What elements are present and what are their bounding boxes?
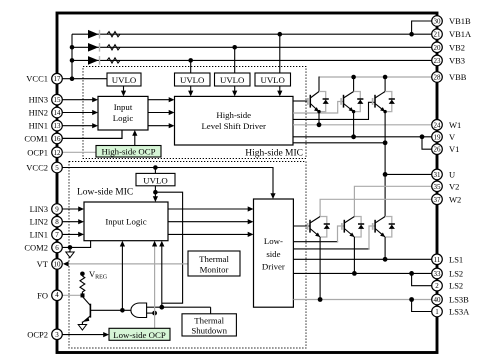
svg-text:VB1B: VB1B	[449, 16, 471, 26]
wire LS1	[293, 257, 431, 262]
svg-text:side: side	[266, 249, 280, 259]
wire gate drive Q5	[293, 226, 344, 242]
high-side MIC dotted box	[83, 67, 306, 159]
pin 6 COM2	[24, 242, 62, 253]
svg-text:Thermal: Thermal	[194, 316, 224, 326]
bootstrap diode D1	[88, 30, 100, 39]
wire VCC2 feed to thermal shutdown	[155, 192, 182, 303]
pin 14 HIN2	[29, 107, 63, 118]
pin 12 OCP1	[27, 147, 62, 158]
block high-side input logic	[98, 96, 148, 130]
svg-text:16: 16	[54, 135, 62, 143]
wire U sense	[293, 140, 388, 145]
arrow low input logic out 3	[168, 232, 254, 237]
arrow fault gate to input logic	[120, 241, 125, 311]
svg-text:15: 15	[54, 96, 62, 104]
svg-text:30: 30	[434, 18, 442, 26]
wire Q5 emitter to LS2	[353, 237, 355, 273]
svg-text:UVLO: UVLO	[180, 75, 204, 85]
svg-text:LIN2: LIN2	[30, 217, 48, 227]
pin 28 VBB	[432, 72, 467, 83]
wire Q7 base	[90, 308, 131, 313]
svg-text:20: 20	[434, 44, 442, 52]
bootstrap resistor R1	[107, 32, 120, 37]
svg-text:5: 5	[55, 164, 59, 172]
svg-text:12: 12	[54, 149, 62, 157]
arrow input logic out 1	[148, 97, 175, 102]
wire VCC1 bootstrap feed vertical	[70, 34, 75, 81]
wire VBB rail	[319, 75, 432, 92]
wire VCC2	[62, 165, 273, 194]
block low-side driver	[254, 199, 294, 307]
svg-text:13: 13	[54, 122, 62, 130]
op block UVLO4	[255, 73, 291, 86]
wire W1 sense	[293, 122, 432, 127]
wire low-side OCP output	[154, 313, 156, 328]
arrow VCC2 into low-side driver	[270, 193, 275, 199]
arrow input logic out 2	[148, 110, 175, 115]
wire VB1A row	[72, 33, 432, 35]
block low-side input logic	[84, 202, 168, 241]
svg-text:UVLO: UVLO	[260, 75, 284, 85]
pin 3 OCP2	[27, 329, 62, 340]
wire LIN1	[62, 232, 84, 237]
svg-text:11: 11	[434, 256, 441, 264]
pin 26 V1	[432, 144, 460, 155]
svg-text:LIN1: LIN1	[30, 229, 48, 239]
svg-text:VT: VT	[37, 259, 49, 269]
node VREG	[80, 269, 108, 281]
wire HIN2	[62, 110, 98, 115]
svg-text:17: 17	[54, 75, 62, 83]
arrow thermal shutdown to input logic	[159, 241, 164, 308]
diode across Q4 low-side W	[320, 217, 330, 238]
svg-text:19: 19	[434, 133, 442, 141]
svg-text:VCC1: VCC1	[26, 74, 48, 84]
junction row3 to UVLO2	[188, 58, 193, 63]
wire Q6 emitter to LS1	[384, 237, 386, 259]
diode across Q5 low-side V	[354, 217, 364, 238]
diode across Q3 high-side U	[385, 92, 395, 112]
svg-text:6: 6	[55, 244, 59, 252]
wire VCC2 tap to UVLO5	[154, 168, 156, 174]
arrow UVLO1 to input logic	[121, 86, 126, 96]
svg-text:33: 33	[434, 270, 442, 278]
svg-text:VBB: VBB	[449, 72, 467, 82]
pin 37 W2	[432, 194, 462, 205]
pin 2 LS2	[432, 280, 463, 291]
transistor Q6 low-side U	[373, 217, 385, 238]
svg-text:LS2: LS2	[449, 281, 463, 291]
package outline	[57, 13, 437, 353]
svg-text:Thermal: Thermal	[199, 254, 229, 264]
svg-text:31: 31	[434, 171, 442, 179]
svg-text:Low-side MIC: Low-side MIC	[77, 188, 133, 198]
arrow UVLO3 to level shift driver	[232, 86, 237, 96]
svg-text:W1: W1	[449, 120, 461, 130]
pin 16 COM1	[24, 133, 62, 144]
svg-text:OCP1: OCP1	[27, 147, 48, 157]
pin 11 LS1	[432, 254, 463, 265]
svg-text:LS1: LS1	[449, 254, 463, 264]
wire VCC1	[62, 78, 107, 80]
svg-text:37: 37	[434, 196, 442, 204]
wire HIN1	[62, 123, 98, 128]
arrow UVLO2 to level shift driver	[188, 86, 193, 96]
svg-text:2: 2	[435, 282, 439, 290]
wire Q3 emitter phase column	[383, 110, 388, 217]
svg-text:21: 21	[434, 31, 442, 39]
wire VB3 tap to UVLO2	[190, 60, 192, 73]
wire VBB drop to Q3	[384, 77, 386, 92]
svg-text:24: 24	[434, 121, 442, 129]
svg-text:OCP2: OCP2	[27, 329, 48, 339]
svg-text:Shutdown: Shutdown	[191, 326, 227, 336]
svg-text:Monitor: Monitor	[200, 265, 229, 275]
bootstrap resistor R2	[107, 45, 120, 50]
bootstrap resistor R3	[107, 58, 120, 63]
block high-side level shift driver	[175, 96, 294, 145]
wire V sense	[293, 134, 432, 139]
svg-text:LS3B: LS3B	[449, 295, 469, 305]
svg-text:VB2: VB2	[449, 42, 465, 52]
svg-text:7: 7	[55, 231, 59, 239]
svg-text:LS3A: LS3A	[449, 307, 470, 317]
svg-text:HIN2: HIN2	[29, 108, 48, 118]
pin 30 VB1B	[432, 16, 471, 27]
wire gate drive Q3	[293, 102, 375, 119]
svg-text:10: 10	[54, 260, 62, 268]
wire U output	[385, 173, 432, 175]
wire gate drive Q1	[293, 100, 308, 102]
svg-text:Low-side OCP: Low-side OCP	[113, 330, 166, 340]
pin 21 VB1A	[432, 29, 472, 40]
wire HIN3	[62, 97, 98, 102]
pin 35 V2	[432, 181, 460, 192]
block low-side OCP	[109, 328, 170, 340]
svg-text:28: 28	[434, 74, 442, 82]
pin 17 VCC1	[26, 73, 62, 84]
transistor Q1 high-side W	[308, 92, 319, 112]
svg-text:COM2: COM2	[24, 242, 48, 252]
wire LIN2	[62, 219, 84, 224]
svg-text:1: 1	[435, 308, 439, 316]
svg-text:Level Shift Driver: Level Shift Driver	[201, 121, 266, 131]
wire OCP2	[62, 332, 109, 337]
block thermal shutdown	[182, 314, 236, 336]
diode across Q2 high-side V	[354, 92, 364, 112]
pin 7 LIN1	[30, 229, 63, 240]
svg-text:HIN1: HIN1	[29, 121, 48, 131]
svg-text:U: U	[449, 169, 455, 179]
pin 4 FO	[37, 290, 62, 301]
wire VB3 row	[72, 59, 432, 61]
svg-text:Driver: Driver	[262, 262, 285, 272]
svg-text:8: 8	[55, 218, 59, 226]
svg-text:Low-: Low-	[264, 236, 283, 246]
junction row1 to UVLO4	[278, 32, 283, 37]
svg-text:VB3: VB3	[449, 55, 465, 65]
wire gate input low-side OCP	[147, 311, 157, 316]
wire VT	[63, 261, 188, 266]
wire gate drive Q2	[293, 102, 344, 114]
pin 10 VT	[37, 259, 63, 270]
junction row2 to UVLO3	[232, 45, 237, 50]
op block UVLO5	[136, 173, 175, 185]
svg-text:COM1: COM1	[24, 133, 48, 143]
wire LIN3	[62, 206, 84, 211]
svg-text:High-side OCP: High-side OCP	[101, 147, 155, 157]
wire thermal shutdown drop	[210, 307, 212, 314]
pin 5 VCC2	[26, 162, 62, 173]
pin 8 LIN2	[30, 216, 63, 227]
wire Q2 emitter to V	[352, 110, 355, 137]
ground COM2	[66, 247, 74, 257]
wire Q4 emitter to LS3	[319, 237, 321, 300]
pin 40 LS3B	[432, 294, 469, 305]
svg-text:VCC2: VCC2	[26, 163, 48, 173]
pin 1 LS3A	[432, 306, 470, 317]
svg-text:V2: V2	[449, 181, 459, 191]
wire gate input thermal shutdown	[147, 305, 211, 310]
wire VBB drop to Q2	[353, 77, 355, 92]
transistor Q7 fault output	[82, 295, 90, 325]
wire FO	[62, 293, 84, 297]
svg-text:Logic: Logic	[113, 113, 134, 123]
arrow input logic out 3	[148, 123, 175, 128]
transistor Q4 low-side W	[308, 217, 321, 238]
arrow low input logic out 1	[168, 206, 254, 211]
op block UVLO3	[215, 73, 251, 86]
diode across Q1 high-side W	[319, 92, 329, 112]
svg-text:High-side: High-side	[216, 110, 251, 120]
ground FO emitter	[78, 325, 86, 331]
wire V2 phase	[354, 186, 431, 216]
wire LS3	[293, 297, 431, 302]
svg-text:LS2: LS2	[449, 268, 463, 278]
op block UVLO1	[107, 73, 141, 86]
arrow high-side OCP to input logic	[132, 130, 137, 146]
wire OCP1	[62, 151, 96, 153]
svg-text:Input Logic: Input Logic	[105, 217, 146, 227]
svg-text:UVLO: UVLO	[143, 175, 167, 185]
svg-text:UVLO: UVLO	[112, 75, 136, 85]
svg-text:LIN3: LIN3	[30, 204, 48, 214]
wire COM1	[62, 130, 122, 138]
pin 33 LS2	[432, 268, 463, 279]
wire COM2	[62, 241, 90, 250]
pin 15 HIN3	[29, 94, 63, 105]
block thermal monitor	[188, 251, 240, 276]
svg-text:3: 3	[55, 331, 59, 339]
pin 31 U	[432, 169, 455, 180]
svg-text:UVLO: UVLO	[220, 75, 244, 85]
pin 19 V	[432, 132, 456, 143]
svg-text:4: 4	[55, 291, 59, 299]
wire VB1A tap to UVLO4	[279, 34, 281, 73]
pin 13 HIN1	[29, 120, 63, 131]
svg-text:Input: Input	[114, 102, 133, 112]
op block UVLO2	[175, 73, 211, 86]
pin 9 LIN3	[30, 204, 63, 215]
arrow UVLO4 to level shift driver	[277, 86, 282, 96]
wire gate drive Q6	[293, 226, 375, 249]
wire V to V1 link	[422, 137, 432, 149]
low-side MIC dotted box	[69, 162, 306, 349]
transistor Q3 high-side U	[373, 92, 386, 112]
svg-text:W2: W2	[449, 194, 461, 204]
arrow low-side OCP to input logic	[152, 241, 157, 313]
resistor FO pull-up	[80, 276, 85, 295]
wire LS3B link to LS3A	[412, 300, 432, 312]
svg-text:23: 23	[434, 57, 442, 65]
svg-text:V1: V1	[449, 144, 459, 154]
svg-text:9: 9	[55, 206, 59, 214]
diode across Q6 low-side U	[385, 217, 395, 238]
svg-text:35: 35	[434, 183, 442, 191]
svg-text:26: 26	[434, 146, 442, 154]
svg-text:40: 40	[434, 296, 442, 304]
svg-text:High-side MIC: High-side MIC	[245, 149, 303, 159]
transistor Q5 low-side V	[342, 217, 355, 238]
svg-text:14: 14	[54, 109, 62, 117]
wire LS2	[293, 271, 431, 276]
svg-text:HIN3: HIN3	[29, 95, 48, 105]
pin 23 VB3	[432, 55, 465, 66]
bootstrap diode D2	[88, 43, 100, 52]
arrow UVLO5 to low input logic	[153, 186, 158, 202]
junction row1 VB1B link	[409, 32, 414, 37]
wire W2 phase	[320, 199, 432, 216]
svg-text:VB1A: VB1A	[449, 29, 472, 39]
pin 20 VB2	[432, 42, 465, 53]
wire VB2 tap to UVLO3	[234, 47, 236, 73]
wire VB2 row	[72, 46, 432, 48]
arrow low input logic out 2	[168, 219, 254, 224]
wire VB1B link	[412, 21, 432, 34]
bootstrap diode D3	[88, 56, 100, 65]
wire Q1 emitter to W1	[317, 110, 320, 125]
wire LS2 link to pin 2	[412, 273, 432, 285]
transistor Q2 high-side V	[341, 92, 354, 112]
svg-text:FO: FO	[37, 290, 48, 300]
svg-text:V: V	[449, 132, 456, 142]
block high-side OCP	[96, 146, 161, 158]
pin 24 W1	[432, 120, 462, 131]
wire gate drive Q4	[293, 225, 310, 227]
gate U2 fault AND	[131, 303, 147, 318]
